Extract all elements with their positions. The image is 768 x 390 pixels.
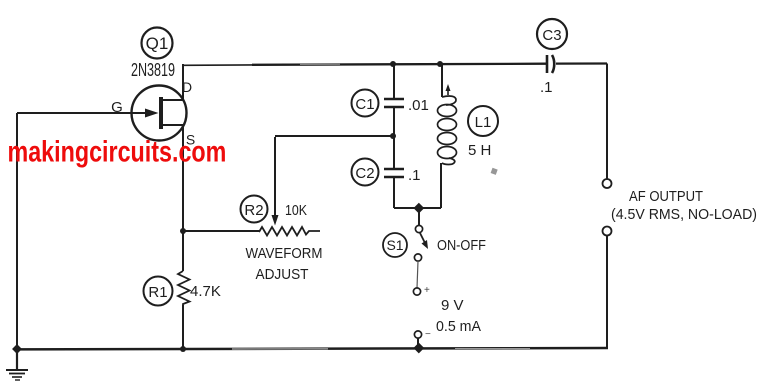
wire: right drop to upper output terminal	[606, 64, 608, 180]
wire: left vertical down to ground rail	[16, 113, 18, 349]
wire: right drop from lower output terminal to rail	[606, 235, 608, 348]
svg-text:.1: .1	[540, 79, 553, 96]
svg-text:WAVEFORM: WAVEFORM	[246, 245, 323, 262]
svg-text:(4.5V RMS, NO-LOAD): (4.5V RMS, NO-LOAD)	[611, 206, 757, 223]
output terminal upper	[603, 179, 612, 188]
svg-text:ON-OFF: ON-OFF	[437, 237, 486, 254]
svg-text:AF OUTPUT: AF OUTPUT	[629, 188, 703, 205]
capacitor C3 (.1)	[547, 55, 554, 73]
label C3 circle	[537, 19, 567, 49]
wire: drain vertical	[182, 64, 184, 100]
svg-text:L1: L1	[475, 114, 492, 131]
svg-text:2N3819: 2N3819	[131, 60, 175, 80]
resistor R2 (potentiometer 10K)	[259, 136, 393, 236]
node: wiper / C1-C2	[390, 133, 396, 139]
capacitor C1 (.01)	[384, 64, 404, 168]
svg-text:S1: S1	[386, 237, 403, 253]
wire: bottom ground rail	[14, 348, 608, 349]
svg-text:D: D	[182, 79, 192, 95]
transistor Q1 (2N3819 JFET)	[132, 86, 187, 141]
node: rail / left corner	[12, 344, 22, 354]
wire: branch to R2	[183, 230, 259, 232]
label S1 circle	[383, 233, 407, 257]
svg-text:makingcircuits.com: makingcircuits.com	[8, 135, 227, 169]
label R1 circle	[144, 277, 173, 306]
svg-text:R2: R2	[244, 202, 263, 219]
svg-text:Q1: Q1	[146, 34, 169, 53]
node: top rail / L1	[437, 61, 443, 67]
label C2 circle	[352, 159, 379, 186]
svg-text:5 H: 5 H	[468, 142, 491, 159]
svg-text:4.7K: 4.7K	[190, 283, 221, 300]
svg-text:.1: .1	[408, 167, 421, 184]
node: top rail / C1	[390, 61, 396, 67]
label C1 circle	[352, 90, 379, 117]
capacitor C2 (.1)	[384, 169, 404, 208]
wire: source vertical down through R1 to rail	[182, 125, 184, 271]
svg-text:C3: C3	[542, 27, 561, 44]
resistor R1 (4.7K)	[178, 271, 190, 305]
node: tank bottom / switch	[413, 203, 424, 214]
node: rail / R1	[180, 346, 186, 352]
node: rail / battery	[413, 343, 424, 354]
wire: gate lead from left corner	[17, 112, 155, 114]
scan smudge	[491, 168, 498, 175]
switch S1 (ON-OFF)	[414, 208, 428, 261]
node: source / R2 branch	[180, 228, 186, 234]
svg-text:C2: C2	[355, 165, 374, 182]
output terminal lower	[603, 227, 612, 236]
ground	[6, 349, 28, 380]
svg-text:10K: 10K	[285, 202, 307, 219]
svg-text:G: G	[111, 99, 123, 116]
label Q1 circle	[142, 28, 173, 59]
svg-text:9 V: 9 V	[441, 297, 464, 314]
wire: tank bottom	[394, 207, 441, 209]
svg-text:R1: R1	[148, 284, 167, 301]
svg-text:−: −	[425, 329, 431, 340]
battery 9V terminals	[413, 261, 431, 347]
wire: top rail from drain corner to C3 left plate	[183, 64, 252, 66]
svg-text:+: +	[424, 285, 430, 296]
svg-text:.01: .01	[408, 97, 429, 114]
svg-text:ADJUST: ADJUST	[256, 266, 309, 283]
svg-text:C1: C1	[355, 96, 374, 113]
svg-text:0.5 mA: 0.5 mA	[436, 318, 481, 335]
label L1 circle	[468, 106, 498, 136]
wire: top rail right of C3 to output corner	[556, 62, 607, 64]
inductor L1 (5 H)	[438, 64, 457, 208]
label R2 circle	[241, 196, 268, 223]
